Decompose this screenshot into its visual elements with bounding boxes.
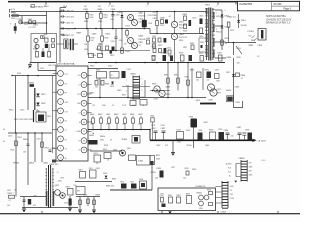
diode cluster D856 [140, 181, 147, 189]
pin 4 IC801 left [58, 99, 64, 105]
svg-text:L803: L803 [177, 142, 181, 144]
svg-text:DT: DT [78, 140, 80, 142]
node +B bus junction [220, 140, 222, 142]
svg-text:CN802: CN802 [239, 158, 245, 160]
svg-text:C847: C847 [215, 69, 219, 71]
svg-text:D810: D810 [200, 42, 204, 44]
svg-text:6: 6 [60, 120, 61, 122]
resistor network RN801 pins [133, 77, 140, 99]
capacitor C851 dark [163, 55, 167, 61]
capacitor C805 [60, 21, 65, 23]
svg-text:1W: 1W [14, 189, 17, 191]
svg-text:R823: R823 [179, 27, 183, 29]
svg-text:C844: C844 [205, 145, 209, 147]
transformer T851 core bar A [48, 165, 49, 208]
wire CN802 left link [236, 164, 241, 177]
wire secondary bus upper [88, 129, 150, 131]
wire drop x168 [167, 63, 169, 98]
pin 12 IC801 right [81, 82, 87, 88]
svg-text:R882: R882 [164, 74, 168, 76]
transformer T801 winding turns dark F [213, 24, 215, 32]
svg-text:472: 472 [111, 6, 114, 8]
transistor Q806b [154, 86, 160, 92]
svg-text:R817: R817 [139, 42, 144, 44]
svg-text:R845: R845 [237, 57, 241, 59]
svg-text:SC-520: SC-520 [274, 4, 283, 6]
resistor R894 body [209, 192, 213, 195]
node live junction [46, 22, 48, 24]
svg-text:5: 5 [60, 111, 61, 113]
svg-text:D855: D855 [157, 168, 162, 170]
wire R840 down [228, 27, 230, 42]
ground main filter [29, 63, 31, 65]
wire left vertical main [15, 76, 17, 134]
wire Q802 chain [174, 12, 176, 22]
inductor L801 [64, 39, 68, 49]
svg-text:R802: R802 [84, 21, 88, 23]
svg-text:R851 C851 D851 R853: R851 C851 D851 R853 [14, 119, 34, 121]
capacitor C839 dark [248, 133, 253, 140]
svg-text:C832: C832 [161, 125, 165, 127]
svg-text:Q810: Q810 [196, 100, 200, 102]
svg-text:4: 4 [142, 84, 143, 86]
capacitor C815 electrolytic [143, 12, 145, 20]
svg-text:1: 1 [225, 10, 226, 12]
svg-text:Q802: Q802 [179, 21, 184, 23]
connector CN803 rail B [227, 181, 229, 208]
wire drop x35 [34, 133, 36, 162]
pin 3 IC801 left [58, 89, 64, 95]
wire secondary tap 2 [215, 25, 222, 27]
transistor Q851 [55, 190, 61, 196]
svg-text:C816: C816 [84, 49, 88, 51]
node +B bus junction [244, 140, 246, 142]
svg-text:OUT: OUT [65, 111, 69, 113]
wire x152 drop [152, 122, 154, 140]
wire IC801 right pin 12 [87, 74, 91, 76]
resistor R893 body [187, 196, 192, 204]
pin 9 IC801 left [58, 145, 64, 151]
capacitor C828 body [147, 40, 150, 44]
capacitor C801 [29, 21, 32, 24]
svg-text:D808: D808 [160, 17, 165, 19]
svg-text:R884: R884 [185, 76, 189, 78]
wire rail y196b [76, 196, 100, 198]
svg-text:C803 472: C803 472 [66, 11, 74, 13]
resistor R802 [45, 38, 48, 42]
capacitor C851e dark [170, 56, 173, 62]
wire varistor top [14, 23, 16, 26]
wire IC801 left pin 3 [53, 91, 58, 93]
capacitor C873 dark [69, 199, 72, 206]
svg-text:R893: R893 [186, 194, 190, 196]
pin 6 IC801 left [58, 117, 64, 123]
capacitor C805 [42, 52, 45, 58]
capacitor C859 dark [151, 161, 154, 165]
title block divider [272, 1, 300, 10]
junction dots y90 rail [152, 90, 154, 92]
capacitor C842 dark [122, 71, 126, 78]
svg-text:C851: C851 [161, 53, 165, 55]
transistor Q801 [128, 15, 134, 21]
svg-text:C855: C855 [160, 195, 164, 197]
resistor R828 [168, 50, 171, 54]
photocoupler LED arrows [252, 36, 258, 41]
switch S801 body [31, 5, 35, 8]
svg-text:Z801: Z801 [63, 6, 67, 8]
connector CN803 pins [222, 183, 228, 209]
svg-text:DRAWN 02-14 REV 1.0: DRAWN 02-14 REV 1.0 [266, 22, 291, 25]
junction dots y50 rail [115, 50, 117, 52]
svg-text:2: 2 [60, 83, 61, 85]
svg-text:9: 9 [60, 148, 61, 150]
resistor R871 body [94, 155, 101, 162]
svg-text:L803: L803 [177, 129, 181, 131]
capacitor C856 dark [162, 204, 166, 208]
svg-text:R892: R892 [177, 195, 181, 197]
svg-text:C825: C825 [199, 15, 203, 17]
svg-text:6: 6 [142, 90, 143, 92]
wire mid rail [150, 33, 204, 35]
svg-text:C827: C827 [183, 47, 187, 49]
relay RL802 body [36, 112, 46, 122]
svg-text:R864: R864 [130, 114, 134, 116]
svg-text:104: 104 [196, 80, 199, 82]
svg-text:5D-9: 5D-9 [24, 24, 28, 26]
svg-text:C833: C833 [189, 116, 194, 118]
resistor R833 [221, 40, 224, 45]
svg-text:R875: R875 [156, 155, 160, 157]
snubber network box [199, 38, 207, 52]
capacitor C874 dark [121, 184, 127, 189]
svg-text:C863: C863 [83, 194, 87, 196]
svg-text:5.6: 5.6 [96, 163, 98, 165]
capacitor C817 dark [110, 50, 113, 54]
svg-text:Q801: Q801 [139, 13, 144, 15]
svg-text:R894: R894 [207, 190, 211, 192]
wire IC801 left pin 7 [53, 128, 58, 130]
svg-text:R867: R867 [122, 95, 126, 97]
transformer T801 secondary winding rail [212, 8, 214, 60]
svg-text:C831: C831 [151, 128, 156, 130]
connector CN802 rail B [246, 160, 248, 182]
connector CN803 rail A [221, 181, 223, 208]
resistor R883b body [177, 78, 180, 83]
capacitor C834 dark [198, 133, 203, 140]
capacitor C804 [45, 44, 48, 48]
relay contact circle A [34, 38, 38, 42]
fuse F801 [12, 15, 18, 17]
resistor R851c body [9, 195, 15, 198]
varistor V801 [14, 26, 17, 31]
node left rail a [27, 75, 29, 77]
svg-text:C815: C815 [148, 15, 152, 17]
pin 17 IC801 right [81, 128, 87, 134]
pin 19 IC801 right [81, 147, 87, 153]
svg-text:C862: C862 [122, 114, 126, 116]
svg-text:C8O4 472: C8O4 472 [66, 17, 75, 19]
svg-text:R891: R891 [168, 195, 172, 197]
svg-text:C875: C875 [130, 182, 134, 184]
node row A rail [74, 28, 76, 30]
diode D817 [232, 74, 235, 77]
capacitor C8O4 [60, 15, 65, 17]
transformer T801 core bar A [208, 8, 209, 61]
svg-text:D810: D810 [199, 36, 203, 38]
svg-text:TH851: TH851 [13, 162, 20, 164]
resistor R830 body [158, 38, 161, 42]
wire mains rail lower [8, 132, 52, 134]
resistor R821 body [156, 21, 159, 26]
resistor network RN801 rail B [139, 76, 141, 100]
transformer T851 winding dark B [53, 191, 55, 206]
capacitor C810 [115, 29, 117, 38]
diode D851b body [68, 189, 74, 196]
resistor R884 body [187, 80, 190, 85]
resistor R885 body [197, 72, 202, 78]
svg-text:C850: C850 [20, 110, 24, 112]
resistor R832 body [191, 45, 194, 50]
svg-text:D852: D852 [29, 162, 35, 164]
diode D810 body [201, 45, 203, 48]
wire IC801 right pin 13 [87, 84, 91, 86]
capacitor C829b dark [52, 160, 56, 163]
sheet top border [8, 1, 300, 3]
resistor R825 [184, 16, 187, 21]
wire rail y190 [110, 189, 152, 191]
svg-text:R878: R878 [179, 53, 183, 55]
svg-text:C846: C846 [141, 97, 145, 99]
svg-text:CN803: CN803 [221, 212, 227, 214]
svg-text:R812: R812 [126, 25, 130, 27]
svg-text:R885: R885 [112, 179, 116, 181]
svg-text:R895b: R895b [151, 172, 156, 174]
svg-text:R863: R863 [114, 114, 118, 116]
svg-text:R848: R848 [236, 102, 240, 104]
svg-text:2W: 2W [225, 43, 228, 45]
svg-text:R825: R825 [183, 14, 188, 16]
wire IC801 right pin 14 [87, 93, 91, 95]
svg-text:D853: D853 [103, 173, 107, 175]
transistor Q852 [60, 193, 66, 199]
node +B bus junction [179, 140, 181, 142]
wire feedback corner [234, 100, 243, 108]
svg-text:R874: R874 [151, 125, 155, 127]
resistor R889 body [87, 199, 90, 204]
transistor Q807 [159, 90, 165, 96]
resistor R804 [36, 52, 39, 58]
resistor R891 body [169, 197, 173, 203]
svg-text:PC801: PC801 [248, 31, 255, 33]
svg-text:R885 12V: R885 12V [106, 185, 115, 187]
capacitor C822 [165, 20, 168, 24]
svg-text:D861: D861 [100, 140, 104, 142]
wire D802 [121, 12, 123, 16]
svg-text:8: 8 [60, 139, 61, 141]
svg-text:R862: R862 [98, 114, 102, 116]
resistor R886 body [215, 74, 220, 79]
wire row B lower [100, 50, 150, 52]
resistor R881 body [219, 55, 223, 61]
wire +B bus thick [150, 139, 253, 141]
svg-text:C874: C874 [120, 182, 124, 184]
resistor at x100.9 [100, 12, 102, 14]
capacitor C823 dark [189, 20, 192, 26]
wire IC801 left pin 9 [53, 147, 58, 149]
svg-text:C872: C872 [33, 196, 37, 198]
wire control rail [88, 68, 118, 70]
svg-text:12: 12 [83, 84, 85, 86]
wire AC live rail [11, 11, 204, 13]
node left rail b [37, 75, 39, 77]
transformer T851 winding dark A [46, 191, 48, 206]
pin 14 IC801 right [81, 100, 87, 106]
wire bottom rail left [30, 62, 56, 64]
svg-text:C861: C861 [96, 168, 100, 170]
diode D853 [105, 176, 108, 179]
svg-text:C861: C861 [89, 168, 93, 170]
svg-text:D816: D816 [237, 48, 241, 50]
svg-text:104: 104 [74, 185, 77, 187]
resistor C861 body [108, 116, 110, 118]
node AC junction [21, 22, 23, 24]
svg-text:C853: C853 [156, 158, 160, 160]
wire drop x94 [93, 197, 95, 211]
svg-text:R883: R883 [174, 74, 178, 76]
svg-text:R868: R868 [90, 92, 94, 94]
svg-text:C822: C822 [160, 25, 164, 27]
wire secondary tap 1 [215, 9, 222, 11]
op-amp IC803 box [158, 188, 216, 211]
svg-text:10: 10 [60, 157, 62, 159]
transformer T801 winding turns dark C [206, 33, 208, 42]
svg-text:D824: D824 [110, 86, 114, 88]
svg-text:R871: R871 [94, 153, 98, 155]
resistor R812 body [126, 31, 129, 36]
diode D822 [36, 103, 39, 106]
line filter box LF801 [31, 34, 57, 63]
svg-text:C836: C836 [224, 130, 229, 132]
svg-text:KA431: KA431 [226, 89, 231, 92]
svg-text:C845: C845 [117, 90, 121, 92]
node +B bus junction [249, 140, 251, 142]
wire bus ground drop [172, 140, 174, 152]
wire drop x88 [87, 197, 89, 207]
svg-text:104: 104 [183, 177, 186, 179]
ground CN802 [234, 181, 237, 183]
svg-text:C854: C854 [10, 150, 14, 152]
wire relay drop thick [33, 110, 35, 122]
wire drop x16 [15, 133, 17, 197]
wire AC neutral rail [11, 15, 47, 17]
svg-text:19: 19 [83, 150, 85, 152]
wire IC left pin bus [52, 76, 54, 154]
svg-text:Q803: Q803 [139, 36, 144, 38]
svg-text:R820: R820 [96, 49, 100, 51]
pin 15 IC801 right [81, 110, 87, 116]
wire IC801 right pin 15 [87, 102, 91, 104]
svg-text:C843: C843 [156, 145, 160, 147]
wire gnd drop x24 [23, 197, 25, 210]
svg-text:R833: R833 [225, 38, 229, 40]
photocoupler PC801 body [258, 29, 266, 41]
resistor R879 body [200, 56, 204, 62]
svg-text:R816: R816 [105, 38, 109, 40]
svg-text:R850: R850 [9, 110, 13, 112]
svg-text:C829: C829 [152, 36, 156, 38]
svg-text:C824: C824 [167, 48, 171, 50]
svg-text:+B 125V: +B 125V [258, 140, 267, 142]
resistor R865 body [95, 81, 98, 86]
svg-text:T801: T801 [205, 4, 211, 6]
capacitor C812 body [98, 46, 101, 50]
transformer T801 winding turns dark G [213, 38, 215, 46]
capacitor C871 [23, 200, 26, 201]
svg-text:IC802: IC802 [138, 161, 143, 163]
svg-text:R840 2.2: R840 2.2 [228, 16, 237, 18]
pin 7 IC801 left [58, 127, 64, 133]
svg-text:222: 222 [138, 124, 141, 126]
diode VD801 body [30, 84, 35, 87]
node y-cap bus top [59, 11, 61, 13]
svg-text:16: 16 [83, 122, 85, 124]
ground x94 [92, 209, 96, 211]
wire branch x28 [27, 76, 29, 111]
svg-text:FR154: FR154 [216, 16, 221, 18]
capacitor C802 [33, 21, 36, 24]
resistor R826 [184, 24, 187, 29]
resistor R849 body [15, 141, 18, 146]
svg-text:IC801 KA3S0765A: IC801 KA3S0765A [56, 63, 75, 66]
diode D802 [121, 15, 124, 18]
svg-text:S802: S802 [44, 34, 48, 36]
capacitor C861b body [90, 170, 97, 178]
resistor R872 body [104, 153, 111, 159]
svg-text:C852: C852 [37, 138, 41, 140]
svg-text:R864: R864 [105, 83, 109, 85]
wire bottom long rail [22, 207, 78, 209]
capacitor C846b body [140, 100, 147, 106]
svg-text:18: 18 [83, 140, 85, 142]
testpoint box TP801 [89, 54, 94, 58]
capacitor C813 dark [112, 47, 115, 52]
svg-text:C865: C865 [113, 149, 117, 151]
svg-text:0.6: 0.6 [78, 84, 80, 86]
svg-text:R879b: R879b [187, 145, 192, 147]
svg-text:C846: C846 [154, 98, 158, 100]
svg-text:B801: B801 [90, 135, 94, 137]
ic timer body [110, 72, 119, 79]
resistor network RN801 rail A [132, 76, 134, 100]
wire control rail lower [88, 97, 206, 99]
svg-text:R804: R804 [98, 21, 102, 23]
capacitor C838 [242, 133, 246, 135]
wire mid rail y86 [122, 86, 150, 88]
wire IC801 right pin 18 [87, 130, 91, 132]
resistor R831 body [153, 44, 156, 48]
resistor R829 [200, 28, 203, 34]
ground bottom left [22, 208, 26, 210]
transformer T801 winding turns dark E [213, 12, 215, 19]
capacitor C824 dark [164, 48, 167, 54]
svg-text:FR104: FR104 [216, 32, 221, 34]
wire IC801 right pin 20 [87, 149, 91, 151]
svg-text:R852: R852 [18, 137, 22, 139]
connector CN802 pins [241, 161, 247, 180]
svg-text:R896: R896 [192, 169, 196, 171]
diode D811 [221, 15, 224, 18]
transistor Q802 switch [171, 21, 177, 27]
